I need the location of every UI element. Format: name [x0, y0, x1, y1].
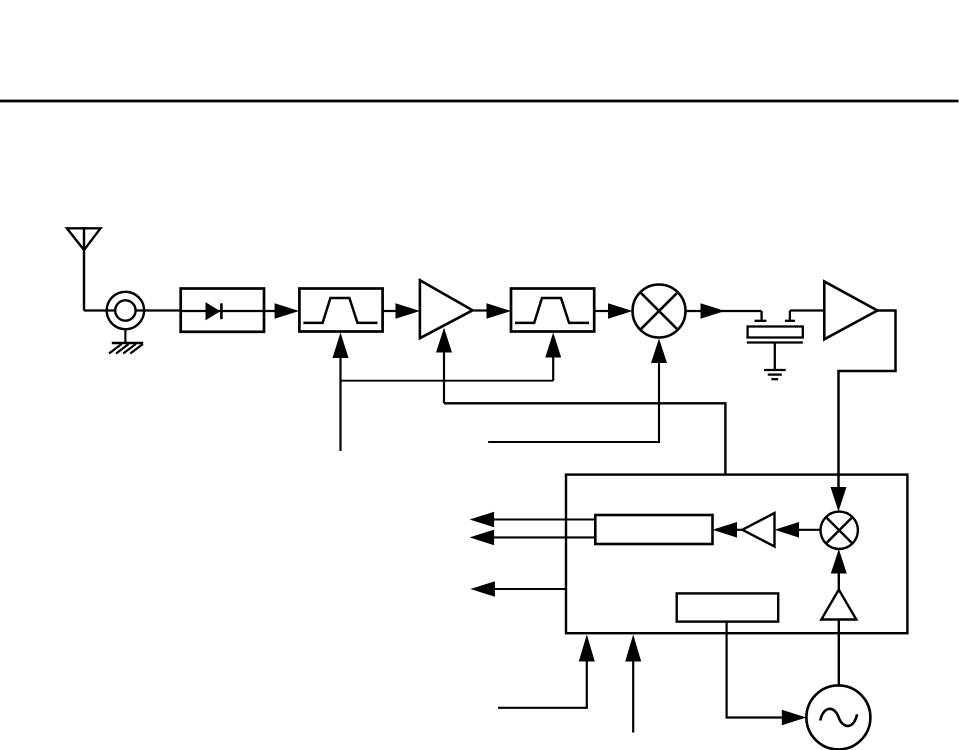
antenna ANT1	[67, 227, 101, 311]
LO wire to M1	[488, 362, 659, 442]
wire M1 to FL3	[686, 310, 762, 312]
arrow A3 to U3	[713, 522, 738, 538]
ground (under FL3)	[764, 370, 786, 379]
arrow into M2 top	[831, 487, 847, 512]
mixer M1	[633, 285, 686, 338]
output arrow 3	[470, 581, 495, 597]
wire M2 to A3	[798, 529, 821, 531]
arrow U1 to FL1	[275, 303, 300, 319]
demodulator block U2 (outline)	[566, 475, 907, 634]
connector J1 (coax input)	[107, 292, 144, 329]
wire G1 to A4	[838, 620, 840, 686]
arrow into G1	[782, 710, 807, 726]
wire FL1 to A1	[383, 310, 398, 312]
block U4 (inside U2, bottom)	[677, 593, 779, 621]
mixer M2	[821, 512, 858, 549]
output arrow 1	[470, 512, 495, 528]
input arrow B	[625, 635, 641, 662]
arrow on M1 output	[701, 303, 726, 319]
ceramic filter FL3	[747, 311, 803, 370]
wire FL3 to A2	[790, 309, 824, 311]
AGC wire A1 to U2	[444, 403, 725, 474]
output arrow 2	[470, 530, 495, 546]
limiter box U1	[181, 289, 264, 332]
wire antenna to connector J1	[84, 309, 181, 311]
AGC wire FL1-FL2	[341, 380, 554, 382]
wire A1 to FL2	[473, 309, 489, 311]
arrow into FL2	[487, 303, 512, 319]
wire U4 to G1	[727, 622, 782, 718]
bandpass filter FL2	[511, 289, 594, 332]
bandpass filter FL1	[299, 289, 382, 332]
LO arrow into M1	[651, 339, 667, 364]
oscillator G1	[806, 685, 870, 749]
arrow into A1	[396, 303, 421, 319]
block U3 (inside U2, top left)	[595, 515, 712, 544]
output wire 2	[493, 536, 595, 538]
amplifier A1	[420, 280, 473, 338]
wire A2 output to M2	[839, 311, 896, 489]
header rule	[0, 100, 959, 103]
input wire A (to U2 bottom)	[498, 661, 587, 708]
diode D1	[206, 302, 222, 320]
wire FL2 to M1	[594, 310, 610, 312]
buffer A4 (points up)	[821, 590, 856, 620]
AGC arrow into FL1	[333, 333, 349, 359]
arrow into M1	[608, 303, 633, 319]
AGC arrow into FL2	[545, 333, 561, 358]
wire through U1	[181, 310, 276, 312]
AGC stem under A1	[443, 351, 445, 403]
output wire 1	[493, 518, 595, 520]
output wire 3	[494, 588, 566, 590]
buffer A3 (points left)	[742, 513, 774, 547]
wire A3 apex	[736, 529, 742, 531]
arrow into A3	[775, 522, 800, 538]
wire A4 to M2	[838, 573, 840, 590]
input arrow A	[579, 635, 595, 662]
ground (chassis ground under J1)	[109, 329, 143, 353]
AGC arrow into A1	[436, 328, 452, 353]
input wire B (stub to U2 bottom)	[632, 661, 634, 733]
AGC stem under FL1	[339, 357, 341, 451]
AGC stem under FL2	[552, 357, 554, 381]
amplifier A2 (IF amp)	[824, 282, 877, 340]
arrow A4 to M2	[831, 549, 847, 574]
